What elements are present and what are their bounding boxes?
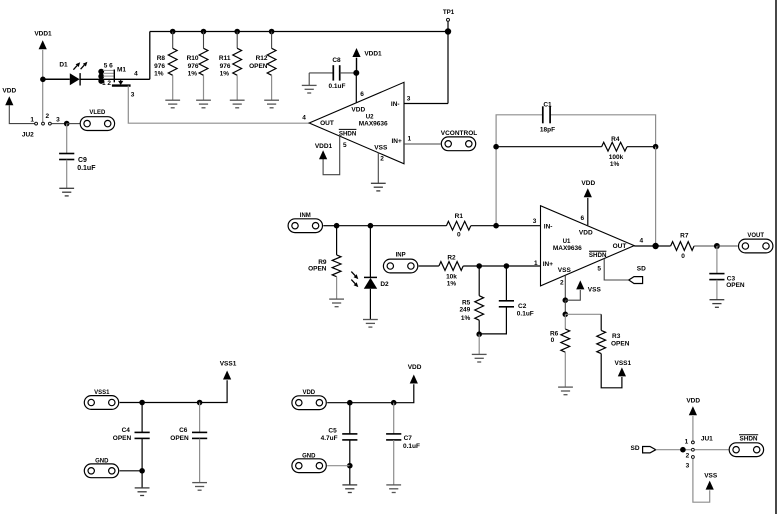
ground bbox=[196, 100, 211, 108]
wire feedback left bbox=[496, 115, 543, 226]
wire bus to R11 bbox=[236, 32, 238, 49]
wire to U2 pin6 bbox=[355, 73, 357, 103]
wire feedback to OUT bbox=[655, 147, 657, 246]
svg-text:3: 3 bbox=[533, 218, 537, 225]
connector INM bbox=[288, 219, 322, 233]
wire VDD to C5 bbox=[327, 402, 350, 404]
svg-text:MAX9636: MAX9636 bbox=[359, 120, 388, 127]
net flag SD bbox=[629, 277, 643, 284]
connector GND bbox=[84, 464, 118, 478]
connector VDD bbox=[292, 396, 326, 410]
svg-text:C8: C8 bbox=[332, 57, 341, 64]
svg-text:SHDN: SHDN bbox=[339, 130, 357, 137]
svg-text:0: 0 bbox=[551, 337, 555, 344]
wire C9 to ground bbox=[66, 160, 68, 189]
capacitor C9 bbox=[59, 154, 74, 160]
jumper pin JU2-2 bbox=[42, 122, 45, 125]
svg-text:R8: R8 bbox=[157, 55, 166, 62]
wire R3 to VSS1 flag bbox=[601, 354, 622, 388]
svg-text:18pF: 18pF bbox=[540, 127, 555, 134]
svg-text:SHDN: SHDN bbox=[589, 252, 607, 259]
resistor R10 bbox=[199, 48, 208, 75]
svg-text:4: 4 bbox=[302, 115, 306, 122]
capacitor C1 bbox=[543, 106, 550, 123]
ground bbox=[165, 100, 180, 108]
svg-text:R10: R10 bbox=[187, 55, 199, 62]
wire U1 OUT bbox=[634, 245, 655, 247]
svg-text:C6: C6 bbox=[179, 427, 188, 434]
wire R2 to node bbox=[463, 265, 479, 267]
svg-text:1: 1 bbox=[534, 260, 538, 267]
svg-text:1%: 1% bbox=[447, 280, 457, 287]
ground bbox=[342, 485, 357, 493]
wire R1 to node bbox=[471, 225, 496, 227]
ground bbox=[264, 100, 279, 108]
junction R4 left bbox=[493, 144, 499, 150]
resistor R1 bbox=[446, 221, 470, 230]
svg-text:JU1: JU1 bbox=[701, 435, 713, 442]
capacitor C2 bbox=[499, 301, 514, 307]
junction bus/R11 bbox=[234, 29, 240, 35]
svg-text:OPEN: OPEN bbox=[308, 266, 327, 273]
power flag VSS1 bbox=[223, 371, 231, 380]
op-amp U1 MAX9636 bbox=[541, 206, 635, 286]
power flag VSS bbox=[706, 481, 714, 490]
svg-text:VDD: VDD bbox=[302, 390, 315, 396]
svg-text:U1: U1 bbox=[563, 238, 571, 245]
svg-text:C2: C2 bbox=[518, 303, 527, 310]
svg-text:2: 2 bbox=[686, 453, 690, 460]
wire to VSS1 flag bbox=[200, 380, 228, 402]
connector VLED bbox=[80, 117, 114, 131]
junction bus/R8 bbox=[170, 29, 176, 35]
resistor R4 bbox=[602, 142, 627, 151]
svg-text:1%: 1% bbox=[610, 161, 620, 168]
wire node to ground bbox=[349, 466, 351, 485]
ground bbox=[710, 300, 725, 308]
junction VOUT bbox=[714, 243, 720, 249]
svg-text:5: 5 bbox=[343, 142, 347, 149]
junction C5 bbox=[347, 400, 353, 406]
capacitor C4 bbox=[135, 432, 150, 438]
junction R5/C2 bbox=[476, 331, 482, 337]
junction VDD1/U2 bbox=[353, 70, 359, 76]
resistor R6 bbox=[561, 329, 570, 352]
svg-text:VDD: VDD bbox=[2, 88, 16, 95]
wire M1 drain riser bbox=[149, 32, 151, 80]
svg-text:VLED: VLED bbox=[89, 110, 106, 116]
svg-text:C7: C7 bbox=[404, 435, 413, 442]
wire C4 bottom bbox=[141, 439, 143, 471]
svg-text:1%: 1% bbox=[154, 71, 164, 78]
resistor R11 bbox=[233, 48, 242, 75]
wire to R7 bbox=[656, 245, 671, 247]
svg-text:VDD: VDD bbox=[579, 230, 593, 237]
wire node to D2 bbox=[369, 226, 371, 278]
wire U2 SHDN to VDD1 bbox=[323, 136, 340, 175]
svg-text:OUT: OUT bbox=[320, 120, 334, 127]
svg-text:3: 3 bbox=[131, 92, 135, 99]
wire U2 IN+ to VCONTROL bbox=[404, 143, 441, 145]
junction D2 bbox=[368, 223, 374, 229]
svg-text:0: 0 bbox=[681, 253, 685, 260]
power flag VDD bbox=[410, 375, 418, 384]
svg-text:VCONTROL: VCONTROL bbox=[441, 130, 478, 137]
svg-text:VDD1: VDD1 bbox=[34, 30, 52, 37]
D2 incident arrow 2 bbox=[351, 280, 358, 288]
svg-text:976: 976 bbox=[188, 63, 199, 70]
svg-text:6: 6 bbox=[360, 91, 364, 98]
junction C4 bbox=[139, 400, 145, 406]
wire node to R6 bbox=[564, 314, 566, 329]
wire bus to R12 bbox=[271, 32, 273, 49]
svg-text:C9: C9 bbox=[78, 157, 87, 164]
wire to R1 bbox=[370, 225, 446, 227]
transistor M1 bbox=[98, 69, 130, 86]
wire INP to R2 bbox=[419, 265, 439, 267]
ground bbox=[230, 100, 245, 108]
ground bbox=[192, 483, 207, 491]
wire C8 to VDD1 node bbox=[340, 72, 357, 74]
ground bbox=[472, 354, 487, 362]
connector INP bbox=[383, 259, 417, 273]
resistor R9 bbox=[332, 255, 341, 277]
wire JU1 pin2 to SHDN bbox=[695, 449, 729, 451]
svg-text:VDD: VDD bbox=[581, 180, 595, 187]
wire node to R5 bbox=[478, 266, 480, 296]
junction C7 bbox=[391, 400, 397, 406]
svg-text:VDD: VDD bbox=[408, 364, 422, 371]
svg-text:R7: R7 bbox=[680, 232, 689, 239]
svg-text:VSS1: VSS1 bbox=[614, 360, 631, 367]
wire TP1 to U2 IN- bbox=[447, 32, 449, 104]
svg-text:VSS: VSS bbox=[588, 286, 602, 293]
svg-text:1%: 1% bbox=[220, 71, 230, 78]
wire to U1 IN+ bbox=[506, 265, 540, 267]
wire to VDD flag bbox=[394, 384, 414, 403]
wire D1 to M1 drain rail bbox=[80, 78, 150, 80]
wire VDD to JU2 pin1 bbox=[9, 105, 34, 123]
wire node to C3 bbox=[716, 246, 718, 274]
wire to U1 IN- bbox=[496, 225, 540, 227]
svg-text:OPEN: OPEN bbox=[611, 340, 630, 347]
wire top bus bbox=[150, 31, 448, 33]
photodiode D2 bbox=[364, 277, 377, 288]
junction SD bbox=[680, 447, 686, 453]
junction bus/R12 bbox=[269, 29, 275, 35]
wire VSS node down bbox=[564, 300, 566, 314]
svg-text:VSS: VSS bbox=[374, 144, 388, 151]
wire VDD1 arrow stem bbox=[356, 58, 358, 73]
svg-text:SD: SD bbox=[637, 266, 646, 273]
capacitor C7 bbox=[386, 434, 401, 440]
wire R11 to ground bbox=[236, 75, 238, 100]
svg-text:0.1uF: 0.1uF bbox=[77, 165, 96, 172]
wire U1 VSS down bbox=[564, 275, 566, 300]
wire C4 top bbox=[141, 403, 143, 433]
junction OUT bbox=[652, 243, 658, 249]
op-amp U2 MAX9636 bbox=[309, 82, 404, 164]
wire to C7 bbox=[350, 402, 394, 404]
svg-text:TP1: TP1 bbox=[443, 9, 455, 16]
junction VLED node bbox=[64, 121, 70, 127]
svg-text:OPEN: OPEN bbox=[726, 282, 745, 289]
wire node to C9 bbox=[66, 124, 68, 154]
wire bus to R8 bbox=[172, 32, 174, 49]
svg-text:VSS1: VSS1 bbox=[220, 360, 237, 367]
connector VOUT bbox=[739, 239, 773, 253]
wire VDD to U1 pin6 bbox=[587, 198, 589, 225]
wire node to ground bbox=[141, 471, 143, 488]
svg-text:0: 0 bbox=[457, 232, 461, 239]
junction GND bbox=[347, 463, 353, 469]
wire M1 source to U2 OUT bbox=[128, 86, 309, 124]
svg-text:R3: R3 bbox=[612, 333, 621, 340]
svg-text:INP: INP bbox=[396, 253, 406, 259]
svg-text:JU2: JU2 bbox=[22, 132, 34, 139]
connector VSS1 bbox=[84, 396, 118, 410]
svg-text:0.1uF: 0.1uF bbox=[403, 443, 420, 450]
wire C5 top bbox=[349, 403, 351, 434]
wire R9 to ground bbox=[336, 277, 338, 299]
resistor R5 bbox=[475, 296, 484, 321]
wire C3 to ground bbox=[716, 280, 718, 300]
capacitor C3 bbox=[709, 274, 724, 280]
svg-text:OPEN: OPEN bbox=[170, 435, 189, 442]
svg-text:INM: INM bbox=[300, 213, 311, 219]
power flag VDD1 bbox=[319, 150, 327, 159]
svg-text:VSS: VSS bbox=[704, 472, 718, 479]
svg-text:4: 4 bbox=[639, 238, 643, 245]
wire C8 ground drop bbox=[308, 73, 310, 86]
wire C7 to ground bbox=[393, 440, 395, 485]
wire R10 to ground bbox=[203, 75, 205, 100]
wire to D1 bbox=[43, 78, 70, 80]
svg-text:6: 6 bbox=[580, 215, 584, 222]
wire R5 to node bbox=[478, 320, 480, 334]
junction C2 bbox=[504, 263, 510, 269]
ground bbox=[386, 485, 401, 493]
power flag VDD bbox=[584, 188, 592, 197]
svg-text:5: 5 bbox=[597, 266, 601, 273]
connector VCONTROL bbox=[441, 137, 475, 151]
svg-text:R1: R1 bbox=[455, 213, 464, 220]
wire node to ground bbox=[478, 334, 480, 354]
svg-text:249: 249 bbox=[459, 306, 470, 313]
ground bbox=[59, 188, 74, 196]
power flag VSS1 bbox=[618, 367, 626, 376]
wire R4 to OUT node bbox=[627, 146, 656, 148]
wire node to VLED bbox=[67, 123, 81, 125]
wire R7 to VOUT node bbox=[694, 245, 717, 247]
svg-text:1%: 1% bbox=[461, 315, 471, 322]
resistor R7 bbox=[671, 242, 695, 251]
connector GND bbox=[292, 459, 326, 473]
wire to C2 node bbox=[479, 265, 506, 267]
power flag VSS bbox=[576, 280, 584, 289]
D1 emission arrow 1 bbox=[73, 62, 80, 69]
jumper pin JU1-3 bbox=[692, 456, 695, 459]
junction R4 right bbox=[653, 144, 659, 150]
wire to R4 bbox=[496, 146, 601, 148]
wire ground to C8 bbox=[309, 72, 333, 74]
jumper pin JU1-1 bbox=[692, 441, 695, 444]
svg-text:R4: R4 bbox=[611, 136, 620, 143]
wire node to R9 bbox=[336, 226, 338, 255]
svg-text:2: 2 bbox=[560, 280, 564, 287]
svg-text:C4: C4 bbox=[122, 427, 131, 434]
ground bbox=[558, 387, 573, 395]
capacitor C6 bbox=[192, 432, 207, 438]
capacitor C5 bbox=[342, 434, 357, 440]
wire R6 to ground bbox=[564, 352, 566, 387]
test point TP1 bbox=[447, 18, 450, 21]
svg-text:D2: D2 bbox=[380, 281, 389, 288]
wire U1 SHDN to SD bbox=[604, 259, 629, 280]
resistor R12 bbox=[267, 48, 276, 75]
jumper pin JU1-2 bbox=[692, 448, 695, 451]
svg-text:C5: C5 bbox=[328, 427, 337, 434]
wire to VOUT bbox=[717, 245, 738, 247]
svg-text:2: 2 bbox=[380, 156, 384, 163]
svg-text:1: 1 bbox=[30, 117, 34, 124]
junction bus/R10 bbox=[201, 29, 207, 35]
wire JU2 pin3 to node bbox=[52, 123, 67, 125]
wire U2 VSS to ground bbox=[377, 153, 379, 184]
svg-text:0.1uF: 0.1uF bbox=[517, 310, 534, 317]
svg-text:3: 3 bbox=[407, 96, 411, 103]
wire feedback right bbox=[550, 115, 656, 147]
junction IN- node bbox=[493, 223, 499, 229]
svg-text:2: 2 bbox=[45, 113, 49, 120]
wire VDD1 stem bbox=[42, 50, 44, 124]
svg-text:10k: 10k bbox=[446, 273, 457, 280]
svg-text:R2: R2 bbox=[447, 254, 456, 261]
wire to D2 node bbox=[337, 225, 371, 227]
wire GND to node bbox=[327, 465, 350, 467]
svg-text:SHDN: SHDN bbox=[739, 436, 757, 443]
svg-text:VDD: VDD bbox=[686, 398, 700, 405]
svg-text:VSS: VSS bbox=[558, 267, 572, 274]
junction LED anode bbox=[40, 77, 46, 83]
ground bbox=[302, 85, 317, 93]
svg-text:4.7uF: 4.7uF bbox=[321, 435, 338, 442]
capacitor C8 bbox=[333, 65, 339, 80]
svg-text:VOUT: VOUT bbox=[747, 233, 764, 239]
wire VDD to JU1 pin1 bbox=[692, 416, 694, 441]
wire node to R3 bbox=[600, 314, 602, 330]
resistor R2 bbox=[439, 262, 463, 271]
svg-text:MAX9636: MAX9636 bbox=[553, 245, 582, 252]
svg-text:D1: D1 bbox=[59, 61, 68, 68]
power flag VDD1 bbox=[352, 48, 360, 57]
svg-text:OPEN: OPEN bbox=[113, 435, 132, 442]
svg-text:1: 1 bbox=[685, 439, 689, 446]
svg-text:5 6: 5 6 bbox=[104, 62, 113, 69]
junction R5 bbox=[476, 263, 482, 269]
wire C7 top bbox=[393, 403, 395, 434]
wire SD to JU1 pin2 bbox=[656, 449, 691, 451]
wire INM to node bbox=[323, 225, 336, 227]
svg-text:M1: M1 bbox=[117, 67, 126, 74]
svg-text:IN+: IN+ bbox=[392, 138, 403, 145]
svg-text:C1: C1 bbox=[543, 101, 552, 108]
junction VSS bbox=[563, 297, 569, 303]
connector SHDN bbox=[729, 443, 763, 457]
junction C6 bbox=[197, 400, 203, 406]
resistor R8 bbox=[168, 48, 177, 75]
svg-text:976: 976 bbox=[154, 63, 165, 70]
ground bbox=[329, 299, 344, 307]
wire C2 to node bbox=[479, 307, 506, 334]
wire C6 to ground bbox=[199, 439, 201, 483]
wire D2 to ground bbox=[369, 289, 371, 320]
svg-text:1%: 1% bbox=[188, 71, 198, 78]
svg-text:0.1uF: 0.1uF bbox=[329, 83, 346, 90]
ground bbox=[363, 320, 378, 328]
D1 emission arrow 2 bbox=[81, 62, 88, 69]
svg-text:SD: SD bbox=[630, 445, 639, 452]
wire GND to node bbox=[120, 470, 143, 472]
jumper pin JU2-3 bbox=[49, 122, 52, 125]
junction R9 bbox=[334, 223, 340, 229]
D2 incident arrow 1 bbox=[351, 272, 358, 280]
wire bus to R10 bbox=[203, 32, 205, 49]
wire R12 to ground bbox=[271, 75, 273, 100]
svg-text:VDD1: VDD1 bbox=[364, 50, 382, 57]
border frame right edge bbox=[775, 0, 777, 514]
svg-text:VDD: VDD bbox=[351, 107, 365, 114]
wire R8 to ground bbox=[172, 75, 174, 100]
junction R6/R3 bbox=[563, 312, 569, 318]
svg-text:IN-: IN- bbox=[391, 101, 400, 108]
wire U2 IN- pin3 bbox=[404, 103, 448, 105]
wire to C6 bbox=[142, 402, 200, 404]
junction TP1 bbox=[445, 28, 451, 34]
net flag SD bbox=[643, 447, 656, 453]
svg-text:R11: R11 bbox=[219, 55, 231, 62]
power flag VDD bbox=[5, 96, 13, 105]
junction GND bbox=[139, 468, 145, 474]
wire TP1 stem bbox=[447, 22, 449, 32]
svg-text:IN+: IN+ bbox=[543, 261, 554, 268]
wire C5 bottom bbox=[349, 440, 351, 466]
wire to VSS flag bbox=[565, 290, 580, 300]
svg-text:IN-: IN- bbox=[544, 223, 553, 230]
svg-text:R12: R12 bbox=[256, 55, 268, 62]
svg-text:VDD1: VDD1 bbox=[315, 143, 333, 150]
power flag VDD1 bbox=[39, 40, 47, 49]
jumper pin JU2-1 bbox=[35, 122, 38, 125]
wire VSS1 to C4 bbox=[120, 402, 143, 404]
svg-text:OUT: OUT bbox=[613, 243, 627, 250]
ground bbox=[371, 183, 386, 191]
wire JU1 pin3 to VSS bbox=[693, 459, 710, 503]
svg-text:976: 976 bbox=[220, 63, 231, 70]
LED D1 bbox=[70, 73, 80, 85]
wire node to C2 bbox=[505, 266, 507, 301]
svg-text:OPEN: OPEN bbox=[249, 63, 268, 70]
wire C6 top bbox=[199, 403, 201, 433]
svg-text:3: 3 bbox=[56, 117, 60, 124]
svg-text:1: 1 bbox=[407, 135, 411, 142]
svg-text:3: 3 bbox=[686, 463, 690, 470]
ground bbox=[135, 488, 150, 496]
power flag VDD bbox=[689, 406, 697, 415]
svg-text:4: 4 bbox=[134, 71, 138, 78]
resistor R3 bbox=[597, 330, 606, 353]
wire to R3 bbox=[565, 313, 601, 315]
